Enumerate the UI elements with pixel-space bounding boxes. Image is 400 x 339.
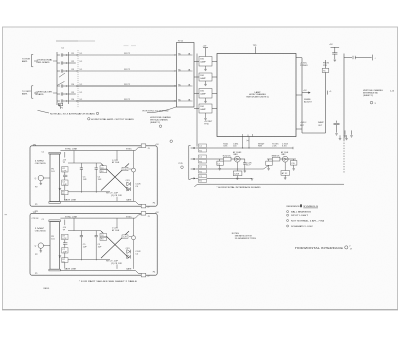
svg-text:AT X2: AT X2 [282, 172, 288, 175]
svg-text:SCHEMATIC LOGIC: SCHEMATIC LOGIC [291, 225, 314, 228]
svg-text:GATE LINE: GATE LINE [64, 199, 77, 202]
svg-text:BBS: BBS [234, 154, 239, 156]
svg-text:LAMP: LAMP [200, 108, 206, 111]
svg-text:REFERENCE: REFERENCE [287, 206, 301, 208]
svg-text:(SHEET 2): (SHEET 2) [363, 95, 373, 97]
svg-text:C208: C208 [234, 173, 240, 175]
svg-text:NOT NORMAL, 4 APL, 7 EA: NOT NORMAL, 4 APL, 7 EA [291, 219, 325, 222]
svg-text:R1: R1 [323, 70, 325, 72]
svg-text:PA101: PA101 [44, 287, 51, 290]
svg-text:OSC MOD: OSC MOD [35, 231, 47, 233]
svg-text:DEFL BOARD: DEFL BOARD [37, 61, 51, 64]
svg-text:HORIZONTAL INTERFACE: HORIZONTAL INTERFACE [295, 246, 343, 250]
svg-text:R888 1K: R888 1K [272, 155, 280, 157]
svg-text:NC: NC [178, 69, 181, 71]
svg-text:NC: NC [178, 84, 181, 86]
svg-text:AT CHE: AT CHE [112, 161, 120, 164]
svg-text:AT CHE: AT CHE [112, 229, 120, 232]
svg-text:NC: NC [178, 99, 181, 101]
svg-text:W1 P2: W1 P2 [124, 53, 131, 55]
svg-text:+5V: +5V [155, 144, 159, 146]
svg-text:R232 1K: R232 1K [223, 155, 231, 157]
svg-text:+5V: +5V [203, 45, 207, 47]
svg-text:SPARE: SPARE [304, 98, 311, 101]
svg-text:(2) C8 1UF: (2) C8 1UF [111, 263, 122, 265]
svg-text:2.2K: 2.2K [123, 169, 128, 171]
svg-text:LAMP: LAMP [200, 77, 206, 80]
svg-text:2.2K: 2.2K [123, 237, 128, 239]
svg-text:SYNC LINE: SYNC LINE [65, 216, 78, 218]
svg-text:RAMP: RAMP [318, 121, 324, 124]
svg-text:2.2K: 2.2K [272, 146, 277, 148]
svg-text:+5V: +5V [155, 212, 159, 214]
svg-text:P2 J2: P2 J2 [178, 41, 184, 43]
svg-text:XXX: XXX [223, 146, 228, 148]
svg-text:GATE: GATE [126, 268, 132, 271]
svg-text:BALL BEARINGS: BALL BEARINGS [291, 210, 312, 213]
svg-text:4C P: 4C P [246, 165, 251, 167]
svg-text:NC: NC [178, 53, 181, 55]
svg-text:POWER: POWER [300, 65, 308, 67]
svg-text:SPOT LIGHT: SPOT LIGHT [291, 215, 309, 217]
svg-text:X.XX: X.XX [282, 146, 287, 148]
svg-text:HOR SYNC TO VERT BD: HOR SYNC TO VERT BD [143, 110, 170, 112]
svg-text:AMPL: AMPL [22, 93, 28, 96]
svg-text:R9 C9 .1UF: R9 C9 .1UF [106, 193, 119, 195]
svg-text:R9 C9 .1UF: R9 C9 .1UF [106, 260, 119, 262]
svg-text:W1 P2: W1 P2 [124, 69, 131, 71]
svg-text:W1 P2: W1 P2 [124, 84, 131, 86]
svg-text:* FOR PART VALUES SEE SHEET 2: * FOR PART VALUES SEE SHEET 2 TABLE [79, 280, 138, 283]
svg-text:LAMP: LAMP [200, 92, 206, 95]
svg-text:W1 P2: W1 P2 [124, 99, 131, 101]
svg-text:SYNC: SYNC [126, 149, 132, 151]
svg-text:2 VERTICAL DEFL: 2 VERTICAL DEFL [36, 91, 54, 94]
svg-text:GATE: GATE [126, 199, 132, 202]
svg-text:AMPL: AMPL [22, 60, 28, 63]
svg-text:(2) C8 1UF: (2) C8 1UF [111, 195, 122, 197]
svg-text:(SHEET 2): (SHEET 2) [150, 122, 160, 124]
svg-text:R/W: R/W [258, 146, 262, 148]
svg-text:SWITCH ASSY (NOTE 1): SWITCH ASSY (NOTE 1) [246, 96, 269, 99]
svg-text:GATE LINE: GATE LINE [64, 268, 77, 271]
svg-text:SYNC LINE: SYNC LINE [65, 149, 78, 151]
svg-text:NOTE ALL XX.X ATTENUATOR BOARD: NOTE ALL XX.X ATTENUATOR BOARD [50, 113, 96, 116]
svg-text:SYNC: SYNC [126, 216, 132, 218]
svg-text:ADJUST: ADJUST [304, 100, 313, 103]
svg-text:LAMP: LAMP [200, 60, 206, 63]
svg-text:OSC MOD: OSC MOD [35, 163, 47, 165]
svg-text:+5V RET: +5V RET [204, 121, 213, 123]
svg-text:C7R 1K: C7R 1K [32, 218, 40, 220]
svg-text:XX-GENERATOR TYPES: XX-GENERATOR TYPES [235, 237, 257, 240]
svg-text:* HORIZONTAL INTERFACE BOARD: * HORIZONTAL INTERFACE BOARD [217, 186, 262, 189]
svg-text:BOARD: BOARD [36, 93, 45, 96]
svg-text:1 HORIZONTAL: 1 HORIZONTAL [37, 59, 54, 62]
svg-text:HORIZONTAL AMPL OUTPUT BOARD: HORIZONTAL AMPL OUTPUT BOARD [91, 118, 135, 121]
